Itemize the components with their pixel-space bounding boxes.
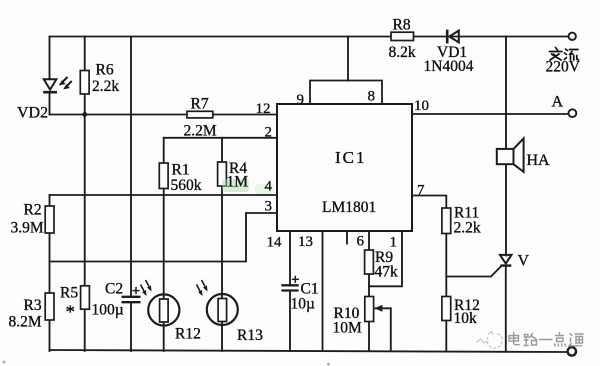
wire VD2 branch vertical	[49, 37, 51, 115]
wire pin4 rail	[50, 194, 278, 196]
wire R9-R10 vertical	[368, 231, 370, 351]
svg-text:10M: 10M	[333, 320, 363, 337]
一	[540, 339, 553, 341]
svg-text:3: 3	[265, 199, 273, 215]
svg-text:R13: R13	[237, 327, 263, 344]
R10 wiper arrowhead	[375, 305, 383, 312]
svg-text:V: V	[518, 253, 530, 270]
路	[524, 334, 537, 346]
label AC 220V chinese 交流	[550, 48, 579, 61]
svg-text:R6: R6	[96, 62, 114, 79]
svg-text:8.2M: 8.2M	[9, 314, 42, 331]
wire pin1 jog	[369, 231, 402, 286]
svg-text:7: 7	[417, 183, 425, 199]
wire R2-R3 vertical	[49, 195, 51, 351]
light arrows R13	[197, 280, 208, 296]
wire pin6 tick	[346, 231, 348, 244]
svg-text:R8: R8	[393, 17, 411, 34]
light arrows R12	[141, 280, 152, 296]
svg-text:2.2k: 2.2k	[454, 220, 481, 237]
watermark text 电路一点通	[509, 333, 583, 347]
faint scan specks	[2, 360, 5, 363]
wire pin3 net	[50, 213, 278, 262]
svg-text:R5: R5	[60, 284, 78, 301]
点	[555, 333, 566, 347]
svg-text:6: 6	[357, 234, 365, 250]
svg-text:14: 14	[267, 235, 283, 251]
svg-text:4: 4	[265, 179, 273, 195]
light arrows VD2	[59, 77, 72, 90]
svg-text:R7: R7	[191, 96, 209, 113]
svg-text:1: 1	[390, 235, 398, 251]
wire R10 wiper	[376, 308, 391, 351]
svg-text:HA: HA	[527, 152, 551, 169]
svg-text:R1: R1	[172, 162, 190, 179]
wire pin10 rail	[412, 113, 569, 115]
resistor R3 8.2M	[45, 293, 54, 320]
svg-text:220V: 220V	[546, 59, 581, 76]
photoresistor R12	[148, 294, 179, 325]
green scan smudge near 1M	[222, 179, 249, 192]
wire tab feed	[347, 37, 349, 81]
svg-text:10k: 10k	[454, 310, 478, 327]
photodiode VD2	[43, 79, 57, 92]
svg-text:10: 10	[414, 98, 429, 114]
terminal AC top	[569, 33, 576, 40]
resistor R11 2.2k	[442, 208, 451, 234]
wire R4-R13 vertical	[221, 138, 223, 351]
IC1 LM1801 body	[277, 104, 412, 231]
wire bottom rail	[50, 350, 569, 352]
svg-text:47k: 47k	[375, 264, 399, 281]
svg-text:1N4004: 1N4004	[424, 58, 474, 75]
wire pins 9-8 top tab	[310, 81, 382, 105]
svg-text:2.2k: 2.2k	[92, 78, 119, 95]
resistor R9 47k	[365, 250, 374, 274]
node junction dot at R6 bottom	[82, 112, 87, 117]
电	[509, 333, 519, 345]
svg-text:100µ: 100µ	[92, 302, 124, 319]
terminal bottom	[568, 347, 576, 355]
wire pin12 rail	[50, 114, 278, 116]
svg-text:LM1801: LM1801	[322, 199, 376, 216]
svg-text:560k: 560k	[171, 177, 202, 194]
svg-text:R12: R12	[175, 326, 201, 343]
svg-text:1M: 1M	[227, 174, 249, 191]
wire speaker-SCR vertical	[505, 37, 507, 352]
svg-text:12: 12	[256, 101, 271, 117]
svg-text:C2: C2	[105, 281, 123, 298]
wire C1 vertical	[289, 231, 291, 351]
resistor R7 2.2M	[187, 111, 213, 118]
svg-text:2: 2	[265, 124, 273, 140]
wire top rail	[50, 36, 569, 38]
svg-text:3.9M: 3.9M	[11, 220, 44, 237]
diode VD1 1N4004	[447, 30, 459, 44]
svg-text:R3: R3	[24, 297, 42, 314]
wire pin2 rail	[164, 137, 277, 139]
watermark logo swoosh	[477, 332, 503, 349]
svg-text:IC1: IC1	[335, 148, 367, 167]
resistor R2 3.9M	[45, 206, 54, 233]
通	[569, 334, 584, 346]
svg-text:13: 13	[298, 234, 313, 250]
svg-text:A: A	[552, 94, 564, 111]
svg-text:9: 9	[297, 92, 305, 108]
pin numbers	[256, 88, 430, 250]
resistor R8 8.2k	[391, 32, 414, 40]
resistor R1 560k	[159, 163, 168, 189]
svg-text:2.2M: 2.2M	[184, 123, 217, 140]
resistor R4 1M	[218, 162, 227, 186]
thyristor V	[500, 255, 512, 266]
resistor R5	[81, 286, 90, 309]
svg-text:*: *	[66, 302, 76, 323]
wire SCR gate	[446, 266, 501, 277]
svg-text:VD2: VD2	[17, 105, 48, 122]
resistor R6 2.2k	[80, 71, 89, 95]
svg-text:10µ: 10µ	[291, 296, 316, 313]
photoresistor R13	[207, 294, 238, 325]
resistor R12 10k	[442, 297, 451, 321]
potentiometer R10 10M	[365, 297, 374, 322]
wire pin7 to R11-R12	[412, 196, 446, 352]
wire C2 vertical	[130, 37, 132, 352]
terminal A	[569, 109, 577, 117]
svg-text:8: 8	[368, 88, 376, 104]
wire pin13 down	[322, 231, 324, 351]
capacitor C2 100u	[122, 287, 141, 302]
svg-text:R2: R2	[24, 202, 42, 219]
wire R6-R5 vertical	[84, 37, 86, 352]
wire R1-R12 vertical	[163, 138, 165, 351]
speaker HA	[497, 138, 524, 172]
svg-text:8.2k: 8.2k	[389, 44, 416, 61]
capacitor C1 10u	[281, 276, 299, 291]
